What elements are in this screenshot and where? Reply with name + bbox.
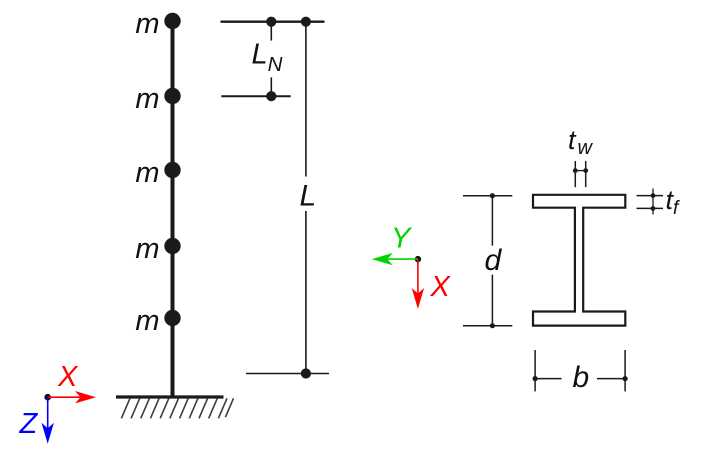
d dot bottom	[490, 323, 495, 328]
t_f dot bottom	[651, 206, 656, 211]
t_w dimension line	[575, 170, 585, 172]
local X arrowhead	[412, 288, 424, 309]
ground line	[116, 395, 224, 398]
global Z arrowhead	[42, 423, 54, 444]
t_w tick left	[574, 161, 576, 187]
mass dot 1	[164, 13, 180, 29]
bottom tick line	[246, 373, 329, 375]
b dimension extension tick left	[534, 350, 536, 391]
mass dot 4	[164, 238, 180, 254]
svg-text:L: L	[300, 180, 317, 213]
local X axis line (red)	[417, 259, 419, 293]
svg-text:Z: Z	[19, 408, 39, 440]
dimension line L lower segment	[305, 211, 307, 374]
t_f dimension line	[652, 189, 654, 215]
b dimension line right segment	[597, 378, 625, 380]
svg-text:X: X	[430, 271, 452, 303]
global X axis line (red)	[48, 396, 81, 398]
b dimension extension tick right	[624, 350, 626, 391]
mass dot 2	[164, 88, 180, 104]
dimension line L upper segment	[305, 22, 307, 177]
svg-text:m: m	[135, 305, 159, 337]
d dimension line upper segment	[491, 196, 493, 246]
mass dot 5	[164, 310, 180, 326]
column (cantilever stick)	[171, 21, 175, 397]
b dot left	[533, 376, 538, 381]
svg-text:b: b	[573, 361, 590, 394]
L dot top	[301, 17, 311, 27]
d dimension extension tick top	[463, 195, 512, 197]
t_w dot left	[573, 168, 578, 173]
mass dot 3	[164, 162, 180, 178]
dimension line L_N lower segment	[270, 77, 272, 96]
local Y arrowhead	[372, 253, 393, 265]
svg-text:d: d	[485, 244, 503, 277]
d dimension line lower segment	[491, 275, 493, 326]
dimension line L_N upper segment	[270, 22, 272, 41]
t_f tick bottom	[637, 207, 664, 209]
I-beam cross-section outline	[533, 195, 625, 326]
b dimension line left segment	[535, 378, 561, 380]
svg-text:m: m	[135, 8, 159, 40]
t_f tick top	[637, 195, 664, 197]
L dot bottom	[301, 368, 311, 378]
local Y axis line (green)	[388, 258, 418, 260]
level-2 tick line	[221, 95, 290, 97]
svg-text:m: m	[135, 233, 159, 265]
global X arrowhead	[75, 391, 96, 403]
top tick line	[221, 21, 325, 23]
d dimension extension tick bottom	[463, 325, 512, 327]
local axes origin dot	[415, 256, 421, 262]
global Z axis line (blue)	[47, 397, 49, 428]
L_N dot bottom	[266, 91, 276, 101]
t_f dot top	[651, 193, 656, 198]
t_w tick right	[585, 161, 587, 187]
L_N dot top	[266, 17, 276, 27]
svg-text:X: X	[57, 361, 79, 393]
d dot top	[490, 193, 495, 198]
t_w dot right	[583, 168, 588, 173]
svg-text:m: m	[135, 157, 159, 189]
svg-text:Y: Y	[391, 223, 413, 255]
svg-text:m: m	[135, 83, 159, 115]
b dot right	[623, 376, 628, 381]
ground hatching	[121, 398, 233, 418]
global axes origin dot	[44, 394, 51, 401]
